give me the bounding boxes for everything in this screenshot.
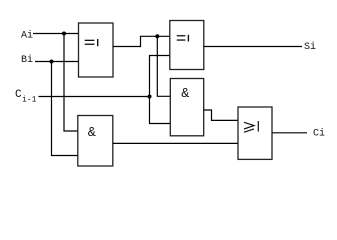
wire Ai branch to AND2 upper input: [64, 34, 78, 132]
wire Ai input: [33, 33, 79, 35]
OR gate U5 label >=1: [244, 121, 258, 132]
wire Bi input: [35, 61, 79, 63]
XOR gate U1 box: [79, 23, 114, 77]
wire XOR1 output to XOR2 upper input: [113, 36, 170, 46]
junction Bi branch: [50, 60, 54, 64]
svg-text:Ai: Ai: [21, 30, 33, 42]
svg-text:&: &: [181, 87, 189, 102]
wire AND2 output to OR lower input: [113, 142, 238, 144]
wire Ci-1 branch down to AND1 lower input: [150, 97, 171, 124]
wire XOR2 output Si: [204, 46, 302, 48]
XOR gate U2 label =1: [177, 35, 189, 42]
junction P branch: [155, 34, 159, 38]
wire Ci-1 branch up to XOR2 lower input: [150, 56, 171, 97]
OR gate U5 box: [238, 107, 272, 159]
wire AND1 output to OR upper input: [204, 110, 238, 120]
wire P branch down to AND1 upper input: [157, 36, 170, 96]
XOR gate U1 label =1: [85, 39, 99, 46]
wire Bi branch to AND2 lower input: [52, 62, 79, 156]
svg-text:Bi: Bi: [21, 54, 33, 66]
AND gate U4 box: [78, 116, 113, 167]
svg-text:Ci: Ci: [313, 128, 325, 140]
AND gate U3 box: [170, 79, 203, 136]
junction Ai branch: [62, 32, 66, 36]
svg-text:&: &: [88, 126, 96, 141]
svg-text:i-1: i-1: [22, 96, 37, 105]
wire OR output Ci: [272, 132, 307, 134]
XOR gate U2 box: [170, 21, 204, 70]
svg-text:Si: Si: [304, 41, 316, 53]
wire Ci-1 input: [39, 96, 150, 98]
junction Ci-1 branch: [148, 95, 152, 99]
svg-text:C: C: [15, 89, 22, 101]
